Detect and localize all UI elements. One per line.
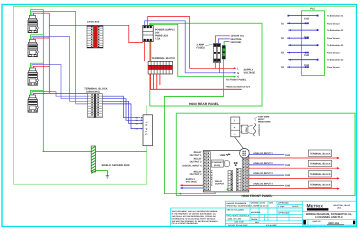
analog connector circle [240, 148, 250, 158]
wire green mains to terminal [224, 42, 230, 46]
svg-text:FUSES: FUSES [197, 47, 206, 50]
svg-text:A. BURR: A. BURR [251, 204, 260, 207]
analog input row 4 [249, 181, 340, 190]
TO PLC connector box [143, 115, 153, 146]
wire xmtr links [240, 125, 253, 134]
svg-text:OUTPUT 1: OUTPUT 1 [190, 154, 202, 157]
wire blue mains to fuse2 [218, 39, 229, 43]
wire red fuse1 bottom to L line [214, 63, 216, 69]
PLC box [302, 11, 325, 76]
svg-text:TERMINAL BLOCK: TERMINAL BLOCK [310, 173, 331, 176]
svg-text:DRAWN: DRAWN [251, 202, 259, 205]
TO PLC pin labels [136, 117, 138, 131]
ethernet icon [234, 162, 238, 165]
wire red conn3 [33, 66, 49, 68]
svg-text:±1/64 .XX ±.005: ±1/64 .XX ±.005 [228, 217, 242, 220]
svg-text:To Estimation 03: To Estimation 03 [327, 44, 344, 47]
svg-text:11-8-31: 11-8-31 [292, 205, 298, 208]
svg-text:From Sensor: From Sensor [327, 66, 340, 69]
wire green supply G arrow [178, 76, 237, 78]
svg-text:GROUND: GROUND [231, 41, 242, 44]
wire blue block to PLC row3 [102, 101, 141, 123]
connector J2 [28, 40, 38, 57]
wire PLC row8 from sensor [287, 66, 307, 68]
wire red mains to fuse1 [215, 36, 230, 44]
svg-text:CH1: CH1 [304, 17, 310, 20]
svg-text:VOLTAGE: VOLTAGE [244, 72, 256, 75]
svg-text:N: N [237, 72, 239, 75]
svg-text:(SENSORS): (SENSORS) [86, 91, 99, 94]
svg-text:USB: USB [220, 154, 225, 157]
svg-text:TERMINAL BLOCK: TERMINAL BLOCK [310, 163, 331, 166]
wires red from terminal block down [151, 74, 242, 89]
svg-text:TO FRONT PANEL: TO FRONT PANEL [226, 78, 247, 81]
svg-text:MATERIAL: MATERIAL [251, 211, 261, 214]
svg-text:OUTPUT: OUTPUT [215, 183, 225, 186]
svg-text:02: 02 [136, 119, 138, 122]
DataWatch XL device box [203, 151, 249, 192]
front panel box H600 [176, 113, 355, 195]
wire red conn1 [33, 13, 49, 15]
svg-text:VOLTAGE: VOLTAGE [186, 181, 198, 184]
svg-text:FINISH: FINISH [251, 218, 258, 221]
svg-text:CHK: CHK [269, 202, 274, 205]
wire green conn4 [31, 90, 44, 95]
svg-text:(RJ45): (RJ45) [214, 164, 220, 167]
terminal block left (sensor wiring) [88, 94, 103, 118]
PLC channel rows [287, 16, 318, 68]
svg-text:TO PLC: TO PLC [145, 122, 148, 137]
svg-text:CH4: CH4 [304, 64, 310, 67]
wire PLC row5 to PLC [288, 44, 317, 46]
wire green bus vertical [31, 10, 44, 152]
svg-text:INPUT: INPUT [258, 118, 265, 121]
svg-text:ANALOG INPUT 4: ANALOG INPUT 4 [253, 182, 273, 185]
svg-text:OUTPUT 3: OUTPUT 3 [190, 173, 202, 176]
wire red 24V bus to power supply [49, 25, 143, 42]
svg-text:DWG NO: DWG NO [313, 220, 322, 223]
svg-text:DATE: DATE [260, 202, 266, 205]
svg-text:APPROVED: APPROVED [278, 202, 289, 205]
wire green conn3 [31, 63, 44, 68]
connector J1 [28, 16, 38, 33]
title block grid [171, 201, 357, 226]
shield ground wire [43, 151, 147, 153]
svg-text:CH3: CH3 [285, 174, 291, 177]
power supply PS1 [143, 26, 153, 42]
svg-text:CH1: CH1 [285, 154, 291, 157]
wire blue block to PLC row2 [102, 99, 141, 121]
primary resistor box [242, 125, 248, 133]
svg-text:H600 FRONT PANEL: H600 FRONT PANEL [242, 194, 273, 198]
wire red PS bottom to terminal block b [150, 42, 152, 62]
wire blue conn2 [32, 36, 88, 101]
ground symbol [106, 176, 110, 178]
fuse F2 [217, 44, 220, 63]
svg-text:ANALOG INPUT 2: ANALOG INPUT 2 [253, 162, 273, 165]
wire ground stub [96, 171, 108, 176]
arrowheads into TO PLC connector [141, 117, 143, 130]
wire PLC row4 from sensor [287, 37, 307, 39]
svg-text:DIGITAL INPUT 4: DIGITAL INPUT 4 [182, 165, 202, 168]
wire red supply to device [180, 184, 203, 186]
wire green supply to device [180, 188, 229, 194]
ETHERNET RJ45 box [212, 160, 224, 167]
svg-text:FRACTIONAL DECIMALS: FRACTIONAL DECIMALS [227, 215, 250, 218]
wire blue conn1 [32, 12, 88, 104]
wire red conn4 to terminal block [33, 93, 87, 95]
terminal block 24VDC bus [87, 26, 103, 48]
svg-text:USA: USA [337, 206, 342, 209]
METRIX logo [307, 204, 351, 211]
USB label and icon [220, 153, 231, 157]
middle terminal column [236, 168, 241, 190]
svg-text:.XXX ±.030: .XXX ±.030 [234, 221, 244, 224]
wire blue block to PLC row1 [102, 96, 140, 118]
svg-text:TWO WIRE: TWO WIRE [258, 115, 270, 118]
PLC row terminals and arrowheads [287, 15, 318, 68]
svg-text:RESISTORS: RESISTORS [258, 121, 271, 124]
leader to fuses [206, 45, 213, 46]
proprietary note text [172, 210, 219, 225]
svg-text:PLC: PLC [310, 8, 315, 11]
svg-text:RELAY: RELAY [215, 180, 223, 183]
svg-text:HOUSTON, TEXAS: HOUSTON, TEXAS [333, 204, 351, 207]
wire xmtr to circle [235, 137, 244, 149]
analog input row 1 [249, 150, 340, 159]
connector J3 [28, 68, 38, 85]
svg-text:To Estimation 04: To Estimation 04 [327, 59, 344, 62]
analog input row 2 [249, 160, 340, 169]
svg-text:24VDC BUS: 24VDC BUS [87, 20, 100, 23]
label power supply [155, 29, 175, 41]
wire PLC row2 from sensor [287, 22, 307, 24]
svg-text:J. Alpn: J. Alpn [278, 205, 285, 208]
svg-text:TERMINAL BLOCK: TERMINAL BLOCK [310, 152, 331, 155]
svg-text:CH2: CH2 [304, 36, 310, 39]
device labels left outside [182, 151, 202, 176]
wire purple PS to fuse N [145, 21, 186, 73]
label two wire [258, 115, 271, 123]
RELAY OUTPUT inner block [215, 171, 233, 191]
labels PLC right side [327, 15, 344, 70]
RJ45 jack shape [225, 161, 230, 167]
svg-text:01: 01 [136, 117, 138, 120]
wire red supply L arrow [190, 67, 237, 69]
date drawn column [251, 202, 298, 227]
wire red PS to L [148, 17, 190, 69]
wire green conn2 [31, 35, 44, 40]
wire blue conn4 [32, 92, 88, 97]
wire red PS bottom to terminal block a [144, 42, 146, 62]
svg-text:CO. ALL RIGHTS RESERVED.: CO. ALL RIGHTS RESERVED. [172, 222, 199, 225]
wire red conn2 [33, 38, 49, 40]
svg-text:APPROVED: APPROVED [278, 212, 289, 215]
tolerance column text [227, 202, 252, 227]
fuse F1 [213, 44, 216, 63]
svg-text:To Estimation 01: To Estimation 01 [327, 15, 344, 18]
svg-text:TERMINAL BLOCK: TERMINAL BLOCK [310, 183, 331, 186]
svg-text:CH4: CH4 [285, 184, 291, 187]
svg-text:From Sensor: From Sensor [327, 22, 340, 25]
two wire transmitter block [231, 117, 240, 137]
svg-text:SPECIFIED, TOLERANCES: SPECIFIED, TOLERANCES [227, 204, 252, 207]
size designator and dwg no [303, 220, 355, 229]
svg-text:OUTPUT 2: OUTPUT 2 [190, 160, 202, 163]
svg-text:ANALOG INPUT 3: ANALOG INPUT 3 [253, 172, 273, 175]
svg-text:7.5A: 7.5A [155, 38, 160, 41]
svg-text:SHIELD GROUND BUS: SHIELD GROUND BUS [102, 164, 130, 167]
svg-text:03: 03 [136, 122, 138, 125]
svg-text:From Sensor: From Sensor [327, 37, 340, 40]
svg-text:TERMINAL BLOCK: TERMINAL BLOCK [152, 57, 175, 60]
wire PLC row3 to PLC [288, 29, 317, 31]
labels mains [231, 35, 245, 44]
wire blue supply to device [180, 187, 203, 189]
label SUPPLY VOLTAGE front [186, 178, 198, 184]
labels L N G supply voltage [237, 67, 255, 78]
terminal block center [148, 61, 172, 74]
svg-text:H600 REAR PANEL: H600 REAR PANEL [189, 102, 219, 106]
drawing title text [306, 213, 353, 219]
svg-text:CH2: CH2 [285, 164, 291, 167]
secondary coil squiggle [254, 123, 256, 136]
cabinet enclosure box (pale green) [14, 7, 356, 185]
wire blue fuse2 bottom to N line [219, 63, 221, 73]
svg-text:From Sensor: From Sensor [327, 52, 340, 55]
svg-text:G: G [237, 76, 239, 79]
wire PLC row7 to PLC [288, 59, 317, 61]
svg-text:ETHERNET: ETHERNET [212, 161, 224, 164]
labels PLC channels [281, 17, 310, 69]
shield ground bus bar [91, 146, 95, 173]
svg-text:To Estimation 02: To Estimation 02 [327, 29, 344, 32]
svg-text:ARE AS FOLLOWS:: ARE AS FOLLOWS: [227, 209, 245, 212]
device left terminal strip [203, 152, 210, 191]
wire blue block to PLC row4 [102, 104, 141, 129]
svg-text:12-15-71: 12-15-71 [260, 204, 268, 207]
connector J4 [28, 95, 38, 112]
wire PLC row1 to PLC [288, 15, 317, 17]
svg-text:04: 04 [136, 128, 138, 131]
svg-text:FROM DATAWATCH 01 R: FROM DATAWATCH 01 R [226, 86, 251, 89]
svg-text:4 CHANNEL AND PLC: 4 CHANNEL AND PLC [315, 216, 343, 219]
wire blue supply N arrow [185, 72, 236, 74]
svg-text:CH3: CH3 [304, 54, 310, 57]
wire blue conn3 [32, 65, 88, 99]
wire green PS to G [151, 24, 178, 76]
rear panel box H600 [150, 23, 262, 106]
wire PLC row6 from sensor [287, 52, 307, 54]
right terminal column [242, 158, 249, 191]
wire red bus vertical [48, 13, 50, 93]
leader two wire [255, 117, 258, 122]
wire green terminal to G line [164, 59, 227, 194]
ground terminal green [222, 46, 225, 60]
analog input row 3 [249, 171, 340, 180]
